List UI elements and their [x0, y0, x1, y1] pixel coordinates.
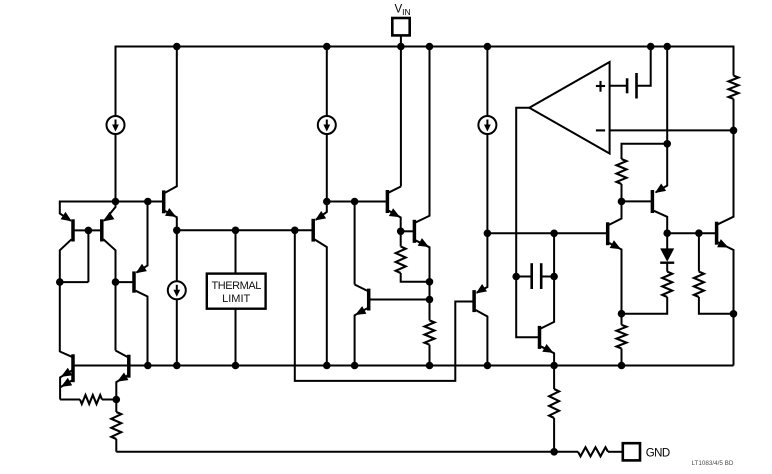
- node U dot: [663, 229, 671, 237]
- resistor R3: [549, 389, 559, 418]
- wire Q1-Q2 bases: [73, 229, 102, 231]
- wire U1 output: [516, 108, 538, 338]
- wire Q14 emitters to R9: [60, 399, 80, 401]
- wire R5 to node S: [622, 297, 668, 314]
- transistor Q7: [413, 220, 417, 243]
- wire rail to I3: [486, 47, 488, 117]
- wire R3 to ground line: [553, 418, 555, 452]
- svg-text:LIMIT: LIMIT: [222, 293, 250, 305]
- wire VIN rail to Q6 collector: [400, 47, 402, 187]
- svg-text:GND: GND: [646, 447, 670, 459]
- wire node I to R1: [400, 231, 402, 246]
- wire rail to I2: [326, 47, 328, 117]
- transistor Q11: [656, 144, 668, 193]
- resistor R7: [729, 76, 739, 99]
- wire node U to D1: [666, 233, 668, 249]
- diode D1: [660, 248, 674, 261]
- current source I3: [478, 116, 496, 134]
- node N dot: [512, 273, 520, 281]
- node D dot: [112, 278, 120, 286]
- wire I4 to bottom rail: [176, 299, 178, 365]
- svg-text:LT1083/4/5 BD: LT1083/4/5 BD: [692, 460, 734, 467]
- node C dot: [56, 278, 64, 286]
- node M dot: [550, 230, 558, 238]
- resistor R10: [111, 412, 121, 439]
- transistor Q14: [71, 354, 75, 382]
- wire node G to thermal limit: [235, 230, 237, 273]
- node K dot: [426, 278, 434, 286]
- node E dot: [323, 198, 331, 206]
- node P dot: [550, 273, 558, 281]
- node G dots: [232, 227, 240, 235]
- terminal VIN: [392, 18, 409, 35]
- node V dot: [695, 229, 703, 237]
- node A dots: [112, 198, 120, 206]
- wire U1 plus input to C1: [610, 85, 628, 87]
- resistor R8: [617, 325, 627, 349]
- wire R1 to node R2-top: [401, 273, 430, 282]
- node T dot: [663, 140, 671, 148]
- resistor R1: [396, 247, 406, 274]
- node X dot: [113, 396, 121, 404]
- wire ground return: [116, 451, 578, 453]
- node R dot: [618, 198, 626, 206]
- current source I1: [107, 116, 125, 134]
- transistor Q10: [606, 222, 610, 245]
- wire node A horizontal: [60, 201, 164, 203]
- wire thermal limit to bottom rail: [235, 309, 237, 366]
- wire top supply rail: [116, 46, 734, 48]
- wire R6 to node W: [699, 297, 734, 314]
- wire node R to R4: [621, 184, 623, 201]
- wire node J horizontal: [487, 232, 607, 234]
- node J dot: [484, 230, 492, 238]
- wire node U horizontal: [667, 232, 715, 234]
- transistor Q5: [137, 202, 148, 273]
- node O dot: [730, 127, 738, 135]
- node W dot: [730, 310, 738, 318]
- node B dot: [85, 227, 93, 235]
- op-amp U1: [529, 62, 609, 154]
- transistor Q4: [316, 202, 327, 220]
- wire R7 to node O: [733, 99, 735, 131]
- transistor Q2: [104, 202, 115, 221]
- wire R8 to bottom rail: [621, 349, 623, 366]
- wire Q11 base: [622, 200, 651, 202]
- wire node E horizontal: [327, 201, 388, 203]
- transistor Q9: [477, 233, 488, 292]
- node rail junction dots: [173, 43, 181, 51]
- resistor R11: [578, 447, 608, 456]
- capacitor C1: [626, 78, 629, 93]
- node bottom rail dots: [144, 362, 152, 370]
- wire R10 to ground line: [115, 439, 117, 452]
- wire node S to R8: [621, 314, 623, 325]
- wire node F horizontal: [177, 229, 313, 231]
- wire R11 to GND terminal: [608, 451, 623, 453]
- resistor R6: [694, 272, 704, 297]
- resistor R2: [425, 320, 435, 344]
- wire node F to I4: [176, 230, 178, 281]
- transistor Q12: [715, 222, 719, 245]
- terminal GND: [623, 443, 640, 460]
- node I dot: [397, 228, 405, 236]
- resistor R5: [662, 272, 672, 297]
- wire U1 minus input: [610, 129, 734, 131]
- wire Q8 base: [369, 299, 430, 301]
- wire node D to Q5 base: [116, 281, 133, 283]
- wire bottom rail: [73, 365, 734, 367]
- node L dot: [426, 296, 434, 304]
- wire R9 to node X: [102, 399, 116, 401]
- transistor Q3: [162, 190, 166, 213]
- wire bottom rail right end up: [733, 314, 735, 366]
- node F dot: [173, 227, 181, 235]
- transistor Q6: [386, 190, 390, 213]
- wire rail to R7: [733, 46, 735, 76]
- resistor R4: [617, 159, 627, 184]
- transistor Q1: [60, 201, 71, 221]
- wire node H to Q8 collector: [354, 202, 356, 285]
- node H dot: [351, 198, 359, 206]
- node Q dot: [550, 448, 558, 456]
- wire bottom rail to R3: [553, 366, 555, 390]
- transistor Q13: [538, 326, 542, 349]
- wire rail to node T: [666, 47, 668, 144]
- wire Q7 base: [401, 230, 413, 232]
- wire node K to node L: [429, 282, 431, 300]
- wire I2 to node E: [326, 134, 328, 202]
- wire I3 to node J: [486, 134, 488, 233]
- wire I1 to node A: [115, 134, 117, 202]
- transistor Q8: [367, 289, 371, 311]
- capacitor C2: [516, 276, 532, 278]
- svg-text:THERMAL: THERMAL: [211, 280, 261, 292]
- wire node X to R10: [115, 400, 117, 413]
- wire node V to R6: [698, 233, 700, 271]
- resistor R9: [80, 395, 102, 404]
- wire bases to collector tie: [87, 230, 89, 282]
- wire R2 to bottom rail: [429, 345, 431, 366]
- current source I4: [168, 281, 186, 299]
- wire node G to Q9 base: [295, 230, 473, 381]
- block thermal limit: [207, 274, 266, 309]
- node S dot: [618, 310, 626, 318]
- wire node L to R2: [429, 300, 431, 321]
- wire rail to I1: [115, 46, 117, 117]
- transistor Q15: [127, 355, 131, 378]
- wire R4 to node T: [622, 144, 668, 159]
- current source I2: [318, 116, 336, 134]
